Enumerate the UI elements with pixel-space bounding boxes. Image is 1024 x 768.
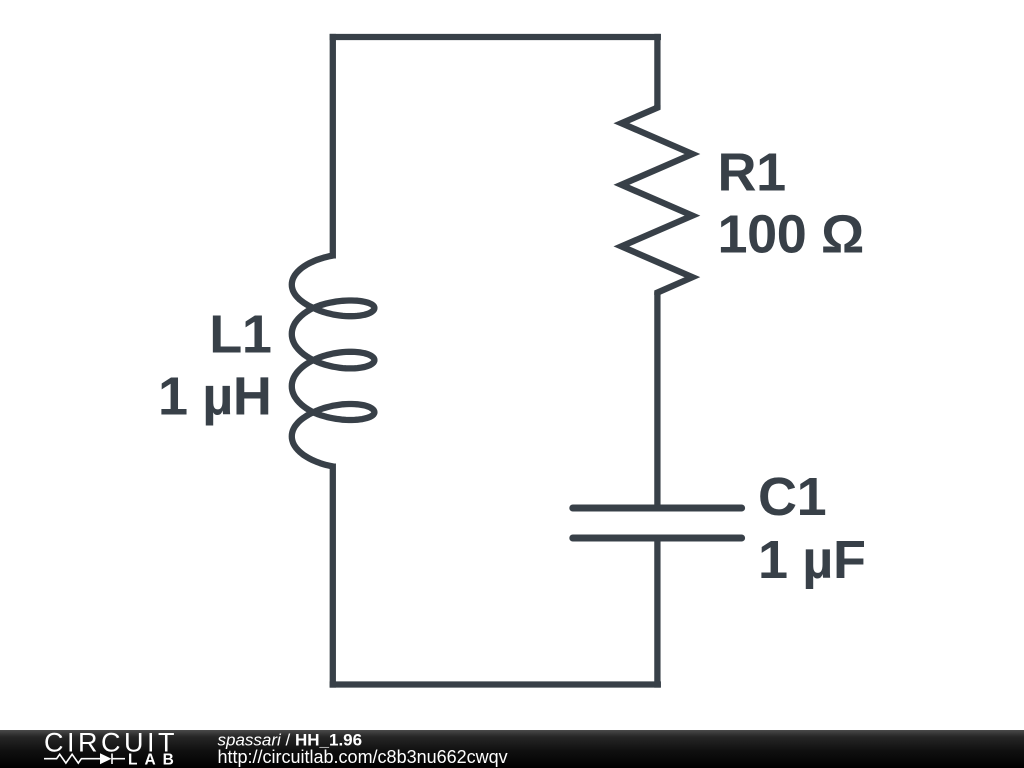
wire right middle — [654, 292, 660, 508]
wire top — [330, 34, 661, 40]
label C1 value 1 uF — [758, 467, 866, 590]
resistor R1 — [621, 105, 692, 295]
wire left lower — [330, 464, 336, 688]
svg-text:C1: C1 — [758, 467, 826, 527]
svg-text:L1: L1 — [209, 305, 271, 365]
svg-text:1 µF: 1 µF — [758, 530, 866, 590]
svg-text:R1: R1 — [718, 143, 786, 203]
svg-text:LAB: LAB — [128, 752, 181, 768]
svg-text:1 µH: 1 µH — [158, 367, 272, 427]
wire left upper — [330, 34, 336, 259]
inductor L1 — [292, 256, 375, 467]
label R1 value 100 Ohm — [718, 143, 864, 265]
svg-text:100 Ω: 100 Ω — [718, 205, 864, 265]
footer bar — [0, 730, 1024, 768]
capacitor C1 — [573, 508, 742, 538]
wire right upper — [654, 34, 660, 109]
wire bottom — [330, 681, 661, 687]
label L1 value 1 uH — [158, 305, 272, 427]
logo resistor-diode doodle — [44, 754, 125, 765]
svg-text:http://circuitlab.com/c8b3nu66: http://circuitlab.com/c8b3nu662cwqv — [218, 747, 508, 767]
wire right lower — [654, 538, 660, 688]
